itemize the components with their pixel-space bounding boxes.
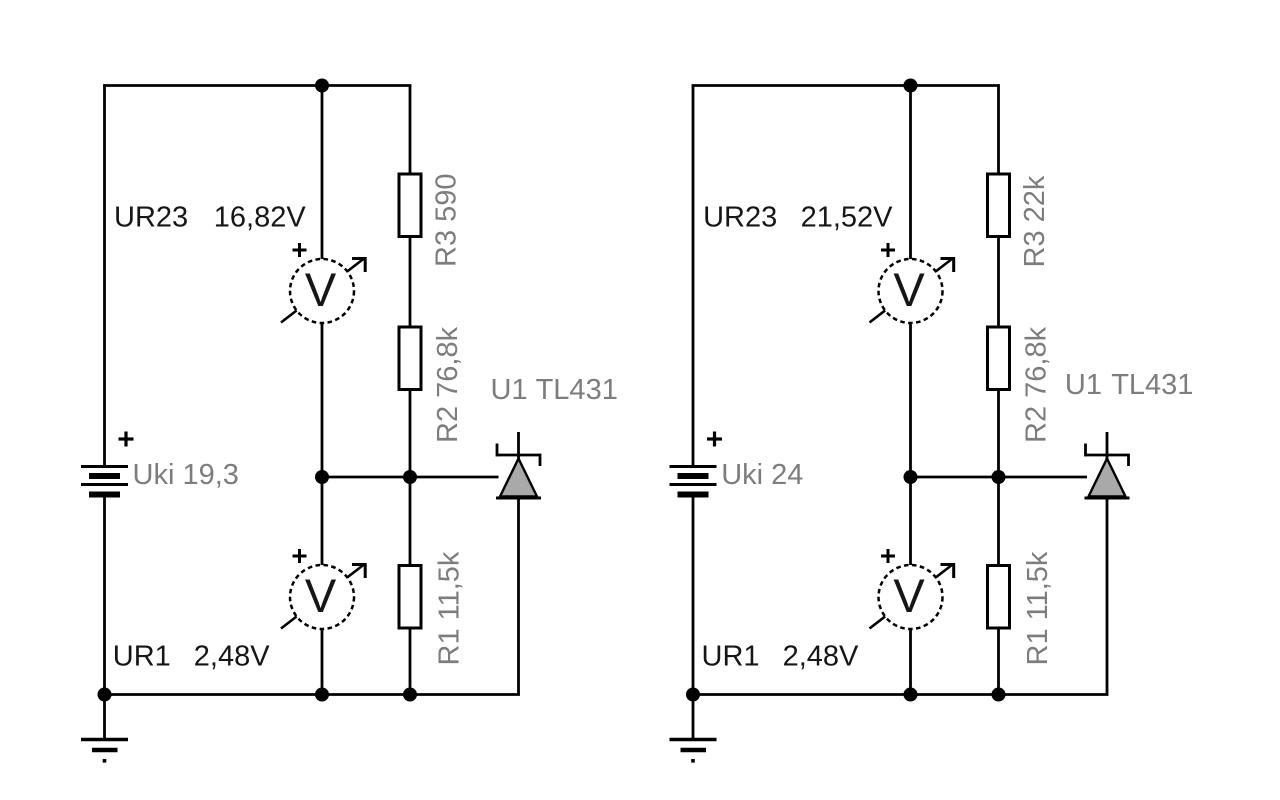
wire voltmeter branch segment bottom circuit 2 [909, 628, 912, 695]
wire middle node rail circuit 2 [911, 476, 1088, 479]
svg-text:V: V [893, 263, 925, 316]
shunt regulator U1 TL431 circuit 1 [496, 432, 541, 498]
wire left branch upper (battery + to top rail) circuit 2 [692, 86, 695, 467]
ground symbol circuit 2 [670, 740, 717, 763]
wire voltmeter branch segment bottom circuit 1 [321, 628, 324, 695]
svg-text:UR23: UR23 [703, 202, 777, 234]
junction bottom rail / ground circuit 2 [686, 688, 700, 702]
voltmeter UR1 body circle circuit 1 [290, 565, 354, 629]
wire top rail circuit 2 [692, 84, 1000, 87]
voltmeter UR1 polarity + circuit 2 [881, 549, 895, 563]
battery Uki circuit 1 [81, 467, 128, 495]
svg-text:2,48V: 2,48V [194, 641, 270, 673]
svg-text:TL431: TL431 [536, 374, 618, 406]
wire voltmeter branch segment mid circuit 1 [321, 322, 324, 566]
U1 triangle body circuit 2 [1089, 459, 1126, 497]
wire left branch lower (battery - to ground rail) circuit 2 [692, 498, 695, 695]
svg-text:21,52V: 21,52V [801, 202, 894, 234]
battery Uki circuit 2 [670, 467, 717, 495]
junction top rail / voltmeter branch circuit 1 [315, 79, 329, 93]
wire R1 to bottom rail circuit 2 [997, 628, 1000, 695]
svg-text:V: V [305, 569, 337, 622]
voltmeter UR23 polarity + circuit 2 [881, 243, 895, 257]
svg-text:V: V [893, 569, 925, 622]
voltmeter UR1 body circle circuit 2 [879, 565, 943, 629]
svg-text:R2 76,8k: R2 76,8k [1021, 326, 1053, 443]
resistor R2 circuit 2 [988, 327, 1010, 390]
svg-text:2,48V: 2,48V [783, 641, 859, 673]
svg-text:UR23: UR23 [114, 202, 188, 234]
wire R2 to middle node circuit 1 [409, 389, 412, 477]
U1 anode bar circuit 1 [496, 497, 541, 500]
wire left branch lower (battery - to ground rail) circuit 1 [103, 498, 106, 695]
voltmeter UR1 needle circuit 1 [281, 565, 364, 629]
svg-text:Uki 19,3: Uki 19,3 [133, 459, 239, 491]
U1 cathode stub wire circuit 2 [1106, 432, 1109, 459]
wire R1 to bottom rail circuit 1 [409, 628, 412, 695]
U1 cathode hook left circuit 2 [1084, 444, 1087, 457]
wire top rail circuit 1 [103, 84, 411, 87]
resistor R1 circuit 1 [399, 566, 421, 629]
voltmeter UR1 needle circuit 2 [870, 565, 953, 629]
U1 cathode hook left circuit 1 [496, 444, 499, 457]
svg-text:TL431: TL431 [1111, 369, 1193, 401]
wire TL431 anode to bottom rail circuit 2 [1106, 498, 1109, 695]
svg-text:UR1: UR1 [702, 641, 760, 673]
voltmeter UR23 body circle circuit 1 [290, 259, 354, 323]
junction bottom rail / resistor branch circuit 1 [403, 688, 417, 702]
svg-text:R1 11,5k: R1 11,5k [434, 551, 466, 665]
U1 cathode crossbar circuit 1 [497, 454, 540, 457]
wire ground stub circuit 1 [103, 695, 106, 740]
junction middle rail / voltmeter branch circuit 2 [904, 470, 918, 484]
voltmeter UR23 needle arrowhead circuit 2 [941, 259, 954, 273]
voltmeter UR23 body circle circuit 2 [879, 259, 943, 323]
U1 cathode hook right circuit 1 [539, 454, 542, 466]
resistor R2 circuit 1 [399, 327, 421, 390]
svg-text:R3 22k: R3 22k [1019, 175, 1051, 267]
resistor R3 circuit 2 [988, 174, 1010, 237]
wire resistor branch: top rail to R3 circuit 2 [997, 86, 1000, 175]
svg-text:UR1: UR1 [113, 641, 171, 673]
svg-text:V: V [305, 263, 337, 316]
wire TL431 anode to bottom rail circuit 1 [517, 498, 520, 695]
wire voltmeter branch segment top circuit 1 [321, 86, 324, 261]
voltmeter UR23 polarity + circuit 1 [293, 243, 307, 257]
svg-text:U1: U1 [491, 374, 528, 406]
wire bottom rail circuit 1 [103, 693, 520, 696]
junction middle rail / resistor branch circuit 1 [403, 470, 417, 484]
svg-text:R2 76,8k: R2 76,8k [432, 326, 464, 443]
voltmeter UR23 needle circuit 1 [281, 259, 364, 323]
U1 cathode hook right circuit 2 [1127, 454, 1130, 466]
svg-text:R3 590: R3 590 [431, 173, 463, 267]
battery polarity + circuit 2 [707, 432, 722, 447]
wire left branch upper (battery + to top rail) circuit 1 [103, 86, 106, 467]
wire ground stub circuit 2 [692, 695, 695, 740]
wire voltmeter branch segment mid circuit 2 [909, 322, 912, 566]
wire voltmeter branch segment top circuit 2 [909, 86, 912, 261]
battery polarity + circuit 1 [119, 432, 134, 447]
junction top rail / voltmeter branch circuit 2 [904, 79, 918, 93]
wire middle node to R1 circuit 2 [997, 477, 1000, 566]
junction bottom rail / voltmeter branch circuit 1 [315, 688, 329, 702]
svg-text:16,82V: 16,82V [214, 202, 307, 234]
junction middle rail / voltmeter branch circuit 1 [315, 470, 329, 484]
svg-text:U1: U1 [1065, 369, 1102, 401]
U1 cathode crossbar circuit 2 [1086, 454, 1129, 457]
ground symbol circuit 1 [81, 740, 128, 763]
junction bottom rail / resistor branch circuit 2 [992, 688, 1006, 702]
svg-text:Uki 24: Uki 24 [721, 459, 803, 491]
wire R2 to middle node circuit 2 [997, 389, 1000, 477]
U1 anode bar circuit 2 [1085, 497, 1130, 500]
wire R3 to R2 circuit 1 [409, 236, 412, 327]
wire middle node rail circuit 1 [322, 476, 499, 479]
resistor R3 circuit 1 [399, 174, 421, 237]
shunt regulator U1 TL431 circuit 2 [1085, 432, 1130, 498]
junction bottom rail / ground circuit 1 [98, 688, 112, 702]
voltmeter UR1 needle arrowhead circuit 2 [941, 565, 954, 579]
voltmeter UR1 polarity + circuit 1 [293, 549, 307, 563]
wire bottom rail circuit 2 [692, 693, 1109, 696]
voltmeter UR23 needle arrowhead circuit 1 [352, 259, 365, 273]
wire R3 to R2 circuit 2 [997, 236, 1000, 327]
svg-text:R1 11,5k: R1 11,5k [1022, 551, 1054, 665]
voltmeter UR1 needle arrowhead circuit 1 [352, 565, 365, 579]
U1 cathode stub wire circuit 1 [517, 432, 520, 459]
resistor R1 circuit 2 [988, 566, 1010, 629]
wire resistor branch: top rail to R3 circuit 1 [409, 86, 412, 175]
junction bottom rail / voltmeter branch circuit 2 [904, 688, 918, 702]
voltmeter UR23 needle circuit 2 [870, 259, 953, 323]
U1 triangle body circuit 1 [500, 459, 537, 497]
junction middle rail / resistor branch circuit 2 [992, 470, 1006, 484]
wire middle node to R1 circuit 1 [409, 477, 412, 566]
